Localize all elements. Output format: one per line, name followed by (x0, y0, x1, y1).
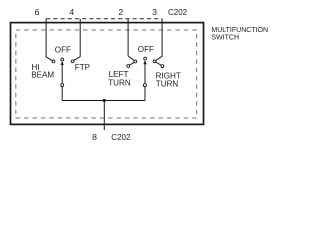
dimmer switch arm shaft (61, 63, 63, 101)
right turn blade (156, 62, 162, 66)
FTP contact terminal (71, 60, 74, 63)
svg-text:8: 8 (92, 132, 97, 142)
turn signal switch pivot (143, 84, 146, 87)
wire pin 6 to HI BEAM contact (46, 19, 52, 61)
svg-text:FTP: FTP (75, 63, 90, 72)
turn signal switch arm arrowhead (143, 60, 146, 64)
svg-text:OFF: OFF (138, 45, 154, 54)
svg-text:6: 6 (35, 7, 40, 17)
svg-text:MULTIFUNCTION: MULTIFUNCTION (211, 27, 268, 34)
dimmer switch arm arrowhead (61, 61, 64, 65)
svg-text:TURN: TURN (108, 78, 131, 87)
svg-text:2: 2 (118, 7, 123, 17)
switch assembly inner dashed box (16, 30, 197, 118)
HI BEAM contact terminal (52, 60, 55, 63)
left turn blade (129, 62, 134, 65)
svg-text:BEAM: BEAM (31, 71, 54, 80)
wire pin 3 to RIGHT TURN contact (156, 19, 162, 61)
OFF contact terminal (dimmer switch) (61, 58, 64, 61)
svg-text:C202: C202 (168, 8, 188, 17)
OFF contact terminal (turn signal switch) (144, 57, 147, 60)
svg-text:4: 4 (69, 7, 74, 17)
dimmer switch pivot (61, 84, 64, 87)
wire to pin 8 (103, 101, 105, 131)
common bus wire (62, 100, 145, 102)
svg-text:OFF: OFF (55, 46, 71, 55)
LEFT TURN contact terminal (134, 60, 137, 63)
junction node (103, 99, 106, 102)
left turn blade terminal (127, 65, 130, 68)
wire pin 2 to LEFT TURN contact (128, 19, 134, 61)
svg-text:C202: C202 (111, 133, 131, 142)
turn signal switch arm shaft (144, 62, 146, 100)
right turn blade terminal (161, 65, 164, 68)
wire pin 4 to FTP contact (74, 19, 80, 61)
RIGHT TURN contact terminal (153, 60, 156, 63)
svg-text:3: 3 (152, 7, 157, 17)
multifunction switch outer box (11, 23, 204, 125)
svg-text:SWITCH: SWITCH (211, 34, 239, 41)
svg-text:TURN: TURN (156, 79, 179, 88)
connector C202 top dashed bracket (46, 18, 162, 20)
